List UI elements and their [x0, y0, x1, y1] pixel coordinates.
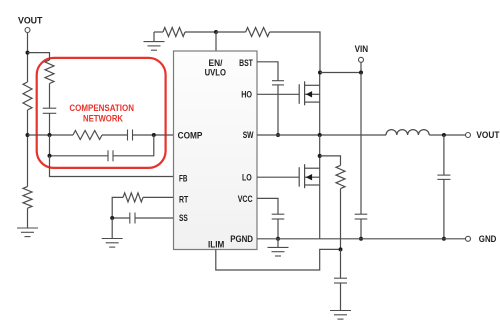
compensation network outline (red) [37, 58, 166, 168]
wire FB node to Rcomp [28, 134, 74, 136]
resistor RILIM (sense) [336, 165, 345, 188]
resistor R2 (divider lower) [23, 187, 32, 209]
wire LO pin to Q2 gate [257, 176, 299, 178]
wire ILIM pin path [216, 249, 339, 270]
wire Rrt to SS junction [112, 197, 123, 218]
transistor Q2 (low-side NMOS) [299, 164, 320, 188]
wire ILIM node to Cilim [340, 249, 342, 278]
svg-text:COMP: COMP [178, 131, 203, 141]
capacitor CBST (bootstrap) [272, 81, 284, 85]
capacitor CVCC [272, 214, 285, 219]
wire EN node to Ren2 [216, 31, 246, 33]
capacitor Cff (feedforward) [43, 108, 57, 113]
wire Ccomp to COMP node [133, 134, 154, 136]
ground (VCC) [268, 247, 289, 256]
wire PGND rail to ground stem [277, 239, 279, 248]
wire Q1 drain-source vertical (VIN rail to SW) [319, 73, 321, 136]
svg-text:RT: RT [179, 194, 189, 204]
wire SW pin to inductor [257, 134, 386, 136]
node FB/divider junction [26, 133, 30, 137]
capacitor COUT (output) [437, 175, 450, 179]
svg-text:LO: LO [242, 173, 252, 183]
wire VOUT tap to feedforward branch [28, 53, 50, 60]
wire HO pin to Q1 gate [257, 93, 299, 95]
svg-text:VOUT: VOUT [476, 130, 499, 140]
pin label EN/UVLO [205, 58, 226, 78]
wire Rcomp to Ccomp [102, 134, 128, 136]
resistor R1 (divider upper) [23, 82, 32, 110]
wire input cap to PGND rail [360, 219, 362, 239]
wire ground to Ren1 [154, 31, 163, 33]
wire RT pin to Rrt [143, 196, 174, 198]
resistor Rff (feedforward) [45, 60, 54, 84]
wire Chf to right riser [113, 135, 154, 156]
svg-text:COMPENSATION: COMPENSATION [69, 103, 134, 113]
op-amp U1 buck controller IC [174, 51, 258, 250]
wire PGND rail [257, 238, 465, 240]
capacitor SS (soft-start) [130, 213, 135, 224]
terminal VOUT (top-left) [25, 28, 30, 33]
wire EN ground stem [153, 32, 155, 42]
svg-text:SS: SS [179, 213, 188, 223]
svg-text:VIN: VIN [355, 44, 369, 54]
wire SS pin to Css [135, 217, 174, 219]
svg-text:BST: BST [239, 58, 253, 68]
terminal VIN [359, 57, 364, 62]
capacitor CIN (input) [355, 214, 368, 219]
label COMPENSATION NETWORK [69, 103, 134, 123]
resistor Ren1 (EN/UVLO lower) [163, 28, 185, 37]
wire output cap bottom [443, 179, 445, 238]
wire left riser Chf branch [50, 135, 109, 156]
node bootstrap-SW junction [276, 133, 280, 137]
node VCC cap / PGND rail [276, 237, 280, 241]
node SW / Q1-Q2 junction [318, 133, 322, 137]
wire bootstrap cap to SW [277, 85, 279, 135]
capacitor CILIM [334, 278, 347, 283]
wire EN node to EN pin [215, 32, 217, 51]
resistor Ren2 (EN/UVLO upper) [246, 28, 270, 37]
wire VIN terminal down [360, 62, 362, 72]
node EN/UVLO [214, 30, 218, 34]
wire FB to FB pin [50, 156, 174, 177]
wire Ren1 to EN node [185, 31, 216, 33]
wire output cap top [443, 135, 445, 175]
terminal VOUT (right) [466, 133, 471, 138]
capacitor Ccomp [128, 130, 133, 141]
resistor RT [123, 193, 143, 202]
node ILIM sense tap [318, 154, 322, 158]
svg-text:SW: SW [243, 130, 254, 140]
svg-text:VCC: VCC [238, 194, 253, 204]
wire R2 to ground [27, 208, 29, 228]
terminal GND [466, 236, 471, 241]
node output cap / PGND rail [442, 237, 446, 241]
wire Q2 drain-source vertical (SW to PGND rail) [319, 135, 321, 239]
wire BST pin to bootstrap cap [257, 62, 278, 81]
node input cap / PGND rail [359, 237, 363, 241]
wire Rilim down to ILIM node [340, 189, 342, 250]
node ILIM junction [339, 247, 343, 251]
wire Rff to Cff [49, 84, 51, 109]
svg-text:GND: GND [479, 234, 497, 244]
wire R1 to FB node [27, 110, 29, 187]
node comp branch right [152, 133, 156, 137]
svg-text:EN/: EN/ [209, 58, 223, 68]
node comp branch left [48, 133, 52, 137]
svg-text:ILIM: ILIM [208, 240, 225, 250]
transistor Q1 (high-side NMOS) [299, 81, 320, 105]
wire COMP node to COMP pin [154, 134, 174, 136]
node VOUT/output cap junction [442, 133, 446, 137]
wire Cff to COMP-line node [49, 113, 51, 135]
wire sense tap to Rilim [320, 156, 341, 166]
node VOUT tap junction [26, 51, 30, 55]
ground (RT/SS) [102, 239, 123, 248]
wire Ren2 to VIN rail [270, 32, 320, 73]
ground (EN divider) [144, 42, 165, 51]
wire VIN down to input cap [360, 73, 362, 215]
wire inductor to VOUT terminal [429, 134, 465, 136]
node VIN junction [359, 71, 363, 75]
wire junction to ground [111, 218, 113, 239]
wire VOUT down to divider [27, 32, 29, 82]
inductor L1 [386, 130, 429, 135]
wire VIN rail horizontal [320, 72, 361, 74]
node RT/SS junction [110, 216, 114, 220]
resistor Rcomp [73, 131, 102, 140]
wire Css to junction [112, 217, 130, 219]
capacitor Chf (parallel) [108, 150, 113, 161]
wire VCC cap to PGND rail [277, 219, 279, 239]
svg-text:PGND: PGND [230, 234, 253, 244]
node Chf left junction [48, 154, 52, 158]
ground (ILIM filter) [330, 311, 351, 320]
wire VCC pin to cap [257, 198, 278, 214]
svg-text:NETWORK: NETWORK [83, 113, 123, 123]
svg-text:UVLO: UVLO [205, 68, 226, 78]
wire Cilim to ground [340, 283, 342, 311]
svg-text:HO: HO [241, 90, 252, 100]
ground (divider) [17, 228, 38, 237]
svg-text:FB: FB [179, 173, 188, 183]
svg-text:VOUT: VOUT [18, 16, 43, 26]
node Q1 drain / VIN rail [318, 71, 322, 75]
